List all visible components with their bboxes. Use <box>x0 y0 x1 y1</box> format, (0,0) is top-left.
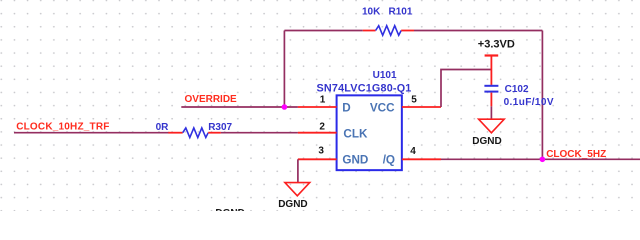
resistor R101 body <box>376 26 402 36</box>
wire feedback top right <box>414 30 542 32</box>
wire R307 to CLK pin <box>221 132 298 134</box>
svg-text:SN74LVC1G80-Q1: SN74LVC1G80-Q1 <box>317 83 412 95</box>
wire feedback right vertical <box>541 31 543 160</box>
wire feedback top horizontal <box>284 30 362 32</box>
svg-text:U101: U101 <box>373 70 397 81</box>
power +3.3VD symbol lead <box>490 56 492 70</box>
ground DGND symbol (left) <box>285 183 310 196</box>
junction CLOCK_5HZ / feedback <box>540 157 546 163</box>
wire cap to DGND <box>490 106 492 119</box>
svg-text:3: 3 <box>318 146 324 157</box>
pin 3 stub (GND) <box>298 158 337 160</box>
op IC U101 body <box>337 95 402 170</box>
svg-text:DGND: DGND <box>472 136 501 147</box>
capacitor C102 top plate <box>484 85 498 87</box>
svg-text:OVERRIDE: OVERRIDE <box>185 94 238 105</box>
svg-text:GND: GND <box>342 154 368 167</box>
resistor R307 body <box>183 128 209 138</box>
svg-text:CLOCK_5HZ: CLOCK_5HZ <box>546 149 606 160</box>
svg-text:0.1uF/10V: 0.1uF/10V <box>504 97 554 108</box>
wire OVERRIDE net stub <box>181 106 298 108</box>
svg-text:4: 4 <box>410 146 416 157</box>
resistor R307 right pin <box>208 132 221 134</box>
power +3.3VD symbol bar <box>485 54 499 56</box>
svg-text:CLOCK_10HZ_TRF: CLOCK_10HZ_TRF <box>16 121 109 132</box>
svg-text:C102: C102 <box>505 84 529 95</box>
svg-text:R307: R307 <box>208 122 232 133</box>
resistor R307 left pin <box>168 132 182 134</box>
svg-text:R101: R101 <box>389 7 413 18</box>
svg-text:+3.3VD: +3.3VD <box>478 39 515 51</box>
svg-text:DGND: DGND <box>278 199 307 210</box>
svg-text:D: D <box>342 102 350 115</box>
svg-text:0R: 0R <box>156 122 170 133</box>
svg-text:VCC: VCC <box>370 102 395 115</box>
wire feedback left vertical <box>283 31 285 108</box>
wire VCC pin up <box>441 70 491 108</box>
resistor R101 left pin <box>363 30 376 32</box>
pin 2 stub (CLK) <box>298 132 337 134</box>
capacitor C102 bottom plate <box>484 91 498 93</box>
svg-text:DGND: DGND <box>215 208 244 211</box>
svg-text:5: 5 <box>411 94 417 105</box>
pin 1 stub (D) <box>298 106 337 108</box>
svg-text:CLK: CLK <box>343 127 368 140</box>
junction at OVERRIDE / feedback <box>282 104 288 110</box>
wire CLOCK_10HZ_TRF net, horizontal to R307 <box>14 132 169 134</box>
ground DGND symbol (capacitor) <box>479 119 505 133</box>
resistor R101 right pin <box>401 30 414 32</box>
pin 5 stub (VCC) <box>402 106 441 108</box>
capacitor C102 top lead <box>490 70 492 85</box>
svg-text:10K: 10K <box>362 7 381 18</box>
wire /Q output CLOCK_5HZ <box>441 158 640 160</box>
pin 4 stub (/Q) <box>402 158 441 160</box>
svg-text:/Q: /Q <box>383 154 395 167</box>
wire pin3 to DGND <box>297 159 299 182</box>
capacitor C102 bottom lead <box>490 93 492 107</box>
svg-text:1: 1 <box>320 94 326 105</box>
svg-text:2: 2 <box>319 122 325 133</box>
